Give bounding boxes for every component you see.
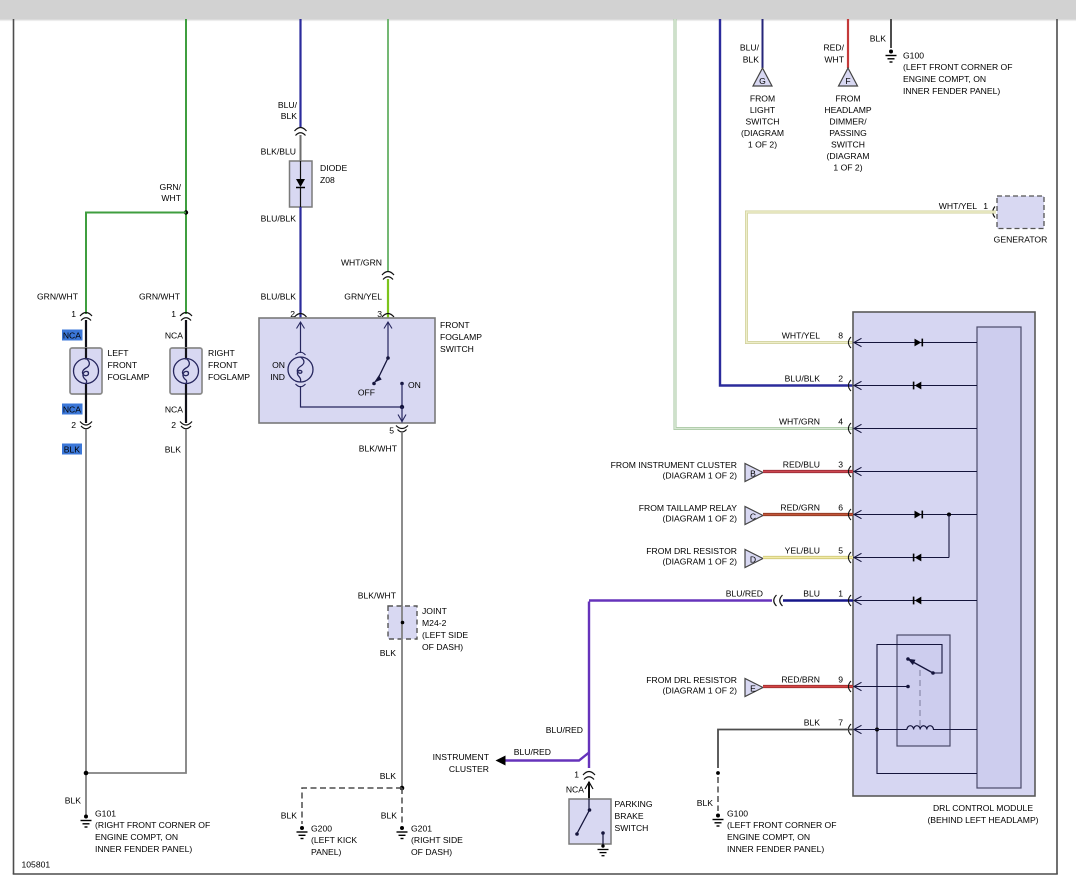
switch arm pin 3 to OFF [358,322,392,398]
svg-text:8: 8 [838,331,843,341]
svg-text:BRAKE: BRAKE [615,811,644,821]
svg-text:YEL/BLU: YEL/BLU [785,546,820,556]
svg-text:BLK: BLK [743,55,760,65]
connector G from light switch [741,68,784,150]
wire GRN/WHT branch to left foglamp [86,213,186,315]
node switch common junction [400,405,404,409]
svg-text:E: E [750,684,756,694]
connector inline on switch feed [382,272,394,280]
svg-text:INNER FENDER PANEL): INNER FENDER PANEL) [95,844,192,854]
diode Z08 [290,161,348,207]
svg-text:ON: ON [272,360,285,370]
top gray toolbar strip [0,0,1076,19]
svg-text:ON: ON [408,380,421,390]
diode on pin 5 (points left) [915,554,922,562]
connector D [745,550,763,568]
node on BLK ground wire [716,771,720,775]
svg-text:2: 2 [71,420,76,430]
ground G101 [81,809,211,855]
svg-text:(DIAGRAM 1 OF 2): (DIAGRAM 1 OF 2) [663,514,738,524]
connector F from headlamp dimmer [824,68,872,173]
svg-text:BLK: BLK [165,445,182,455]
svg-text:BLU/RED: BLU/RED [546,725,583,735]
ground G100 bottom [713,809,837,855]
svg-text:FROM: FROM [750,94,775,104]
relay inside module [875,635,977,774]
pin 3 internal line [854,467,977,475]
wire BLU/BLK to connector G [762,19,764,68]
svg-text:BLK: BLK [697,798,714,808]
svg-text:(BEHIND LEFT HEADLAMP): (BEHIND LEFT HEADLAMP) [927,815,1038,825]
svg-text:FROM DRL RESISTOR: FROM DRL RESISTOR [646,675,737,685]
svg-text:BLK: BLK [65,796,82,806]
switch ON contact [400,380,421,407]
wire BLK/BLU connector to diode [300,135,302,161]
connector B [745,464,763,482]
label NCA highlighted (left) [62,330,83,341]
svg-text:PASSING: PASSING [829,128,867,138]
wire RED/WHT to connector F [847,19,849,68]
ground G201 [397,824,464,858]
svg-text:BLU/BLK: BLU/BLK [785,374,821,384]
svg-text:FROM DRL RESISTOR: FROM DRL RESISTOR [646,546,737,556]
wire BLK lead out of right foglamp [185,394,187,423]
svg-text:ENGINE COMPT, ON: ENGINE COMPT, ON [903,74,986,84]
svg-text:DIMMER/: DIMMER/ [829,117,867,127]
svg-text:1: 1 [838,589,843,599]
ground G100 top right [886,50,1013,97]
svg-text:OF DASH): OF DASH) [411,847,452,857]
connector inline on diode feed [295,128,307,136]
svg-text:BLK: BLK [281,111,298,121]
svg-text:3: 3 [838,460,843,470]
connector at pin 7 [848,724,851,735]
svg-text:1: 1 [171,309,176,319]
svg-text:BLU/RED: BLU/RED [726,589,763,599]
wire BLK module pin 7 to G100 [718,730,853,769]
pin 1 internal line with diode [854,596,977,604]
svg-text:7: 7 [838,718,843,728]
svg-text:1: 1 [71,309,76,319]
svg-text:D: D [750,555,756,565]
svg-text:INSTRUMENT: INSTRUMENT [433,752,490,762]
svg-text:WHT: WHT [161,193,181,203]
svg-text:C: C [750,512,756,522]
wire BLK lead into right foglamp [185,320,187,348]
svg-text:1: 1 [983,201,988,211]
svg-text:PARKING: PARKING [615,799,653,809]
connector at pin 8 [848,337,851,348]
svg-text:(LEFT FRONT CORNER OF: (LEFT FRONT CORNER OF [727,820,837,830]
diode on pin 2 (points left) [915,382,922,390]
svg-text:BLK: BLK [64,445,81,455]
connector at pin 9 [848,681,851,692]
svg-text:CLUSTER: CLUSTER [449,764,489,774]
pin 7 internal line with relay coil [854,725,977,733]
connector at generator pin 1 [993,207,995,218]
pin 8 internal line with diode [854,338,977,346]
svg-text:SWITCH: SWITCH [440,344,474,354]
svg-text:NCA: NCA [165,331,183,341]
pin 5 internal line with diode [854,553,949,561]
connector at pin 2 [848,380,851,391]
wire lamp to common bar [301,386,403,407]
svg-text:9: 9 [838,675,843,685]
svg-text:INNER FENDER PANEL): INNER FENDER PANEL) [903,86,1000,96]
svg-text:G100: G100 [727,809,748,819]
svg-text:(DIAGRAM 1 OF 2): (DIAGRAM 1 OF 2) [663,471,738,481]
joint M24-2 [388,606,468,652]
diode on pin 6 (points right) [915,511,922,519]
svg-text:(LEFT KICK: (LEFT KICK [311,835,357,845]
svg-text:RED/: RED/ [823,43,844,53]
svg-text:RED/GRN: RED/GRN [780,503,820,513]
connector at pin 6 [848,509,851,520]
wire WHT/YEL generator to module pin 8 [747,212,997,343]
connector at pin 1 [848,595,851,606]
svg-text:SWITCH: SWITCH [615,823,649,833]
svg-text:GRN/: GRN/ [160,182,182,192]
svg-text:GRN/YEL: GRN/YEL [344,292,382,302]
svg-text:BLU/RED: BLU/RED [514,747,551,757]
svg-text:BLU/BLK: BLU/BLK [261,214,297,224]
svg-text:M24-2: M24-2 [422,618,447,628]
svg-text:B: B [750,469,756,479]
svg-text:2: 2 [171,420,176,430]
wire RED/BLU to pin 3 [763,470,853,473]
wire BLU/BLK feed to diode Z08 [299,19,301,127]
svg-text:RED/BRN: RED/BRN [781,675,820,685]
wire BLU to pin 1 [783,599,853,601]
svg-text:FROM: FROM [835,94,860,104]
generator (dashed box) [994,196,1048,245]
wire YEL/BLU to pin 5 [763,556,853,559]
wire BLK to G100 top [890,19,892,48]
wire BLU/RED down to parking brake switch [588,602,590,769]
svg-text:JOINT: JOINT [422,606,448,616]
arrow up at switch pin 2 [297,322,305,353]
svg-text:5: 5 [389,426,394,436]
svg-text:BLU/: BLU/ [740,43,760,53]
lamp LEFT FRONT FOGLAMP [70,348,150,394]
svg-text:INNER FENDER PANEL): INNER FENDER PANEL) [727,844,824,854]
svg-text:WHT/GRN: WHT/GRN [341,258,382,268]
svg-text:RED/BLU: RED/BLU [783,460,820,470]
svg-text:BLU/BLK: BLU/BLK [261,292,297,302]
svg-text:LEFT: LEFT [108,348,130,358]
svg-text:F: F [845,76,850,86]
label BLK highlighted (left) [62,444,82,455]
svg-text:PANEL): PANEL) [311,847,342,857]
connector at parking brake pin 1 [583,772,595,780]
wire BLK/WHT switch to joint M24-2 [401,433,403,606]
wire BLK lead into left foglamp [85,320,87,348]
pin 6 internal line with diode [854,510,977,518]
svg-text:ENGINE COMPT, ON: ENGINE COMPT, ON [727,832,810,842]
DRL control module U1 [853,312,1039,825]
pin 4 internal line [854,424,977,432]
wire BLU/BLK diode to switch pin 2 [299,207,301,318]
wire BLU/BLK feed to module pin 2 [720,19,853,386]
pin 2 internal line with diode [854,381,977,389]
svg-text:FROM INSTRUMENT CLUSTER: FROM INSTRUMENT CLUSTER [611,460,737,470]
svg-text:Z08: Z08 [320,175,335,185]
svg-text:BLK: BLK [281,811,298,821]
wire BLK lead out of left foglamp [85,394,87,423]
svg-text:WHT/YEL: WHT/YEL [939,201,977,211]
wire GRN/YEL connector to switch pin 3 [387,279,389,318]
diode on pin 8 (points right) [915,339,922,347]
svg-text:(DIAGRAM: (DIAGRAM [827,151,870,161]
wire dashed to G200 [302,788,402,824]
svg-text:LIGHT: LIGHT [750,105,776,115]
svg-text:BLK: BLK [804,718,821,728]
wire WHT/GRN feed to module pin 4 [675,19,853,429]
svg-text:G201: G201 [411,824,432,834]
svg-text:NCA: NCA [63,405,81,415]
svg-text:FRONT: FRONT [108,360,138,370]
svg-text:IND: IND [270,372,285,382]
wire BLU/RED horizontal [589,599,772,601]
svg-text:FRONT: FRONT [440,320,470,330]
svg-text:SWITCH: SWITCH [746,117,780,127]
lamp ON IND indicator [270,352,313,387]
connector C [745,507,763,525]
svg-text:NCA: NCA [63,331,81,341]
connector at pin 4 [848,423,851,434]
svg-text:WHT/GRN: WHT/GRN [779,417,820,427]
svg-text:BLU/: BLU/ [278,100,298,110]
arrow down to switch pin 5 [398,407,406,423]
svg-text:DIODE: DIODE [320,163,347,173]
svg-text:1 OF 2): 1 OF 2) [748,140,777,150]
svg-text:RIGHT: RIGHT [208,348,235,358]
node GRN/WHT branch junction [184,210,188,214]
svg-text:GRN/WHT: GRN/WHT [37,292,79,302]
lamp RIGHT FRONT FOGLAMP [170,348,250,394]
svg-text:OFF: OFF [358,388,375,398]
switch PARKING BRAKE SWITCH [569,799,653,846]
connector inline double on pin 1 feed [774,595,783,606]
wire BLU/RED branch to instrument cluster [505,753,589,761]
svg-text:(DIAGRAM 1 OF 2): (DIAGRAM 1 OF 2) [663,686,738,696]
svg-text:FOGLAMP: FOGLAMP [440,332,482,342]
svg-text:BLK: BLK [380,648,397,658]
svg-text:G200: G200 [311,824,332,834]
connector E [745,679,763,697]
switch FRONT FOGLAMP SWITCH [259,318,482,423]
svg-text:BLK: BLK [380,771,397,781]
label NCA highlighted lower (left) [62,404,83,415]
node pin6/pin5 tie [947,513,951,517]
svg-text:BLK: BLK [870,34,887,44]
connector at pin 3 [848,466,851,477]
wire dashed BLK to G100 bottom [717,777,719,811]
svg-text:WHT/YEL: WHT/YEL [782,331,820,341]
wire RED/BRN to pin 9 [763,685,853,688]
svg-text:FROM TAILLAMP RELAY: FROM TAILLAMP RELAY [639,503,737,513]
wire GRN/WHT vertical feed to right foglamp [185,19,187,314]
svg-text:(LEFT SIDE: (LEFT SIDE [422,630,468,640]
svg-text:(DIAGRAM: (DIAGRAM [741,128,784,138]
svg-text:HEADLAMP: HEADLAMP [824,105,872,115]
svg-text:(RIGHT SIDE: (RIGHT SIDE [411,835,463,845]
wire pin6 to pin5 internal [948,515,950,558]
wire BLK left foglamp to G101 [85,429,87,816]
svg-text:G101: G101 [95,809,116,819]
wire BLK joint to ground junction [401,639,403,788]
svg-text:GENERATOR: GENERATOR [994,235,1048,245]
svg-text:NCA: NCA [165,405,183,415]
svg-text:1: 1 [574,770,579,780]
node ground branch junction [400,786,405,791]
svg-text:GRN/WHT: GRN/WHT [139,292,181,302]
ground at parking brake switch [598,844,609,855]
ground G200 [297,824,358,858]
svg-text:G100: G100 [903,51,924,61]
svg-text:DRL CONTROL MODULE: DRL CONTROL MODULE [933,803,1033,813]
svg-text:BLU: BLU [803,589,820,599]
wire WHT/GRN feed to switch [387,19,389,271]
svg-text:105801: 105801 [22,860,51,870]
svg-text:(LEFT FRONT CORNER OF: (LEFT FRONT CORNER OF [903,62,1013,72]
svg-text:OF DASH): OF DASH) [422,642,463,652]
wire BLK right foglamp down and over to G101 [86,429,186,773]
svg-text:BLK/WHT: BLK/WHT [359,444,398,454]
wire RED/GRN to pin 6 [763,513,853,516]
svg-text:FRONT: FRONT [208,360,238,370]
svg-text:NCA: NCA [566,785,584,795]
svg-text:(RIGHT FRONT CORNER OF: (RIGHT FRONT CORNER OF [95,820,210,830]
pin 9 internal line to relay coil contact [854,682,908,690]
svg-text:(DIAGRAM 1 OF 2): (DIAGRAM 1 OF 2) [663,557,738,567]
svg-text:ENGINE COMPT, ON: ENGINE COMPT, ON [95,832,178,842]
diode on pin 1 (points left) [915,597,922,605]
svg-text:WHT: WHT [824,55,844,65]
svg-text:G: G [759,76,766,86]
connector at pin 5 [848,552,851,563]
svg-text:BLK/BLU: BLK/BLU [261,147,296,157]
node junction at G101 riser [84,771,89,776]
wire dashed to G201 [401,788,403,824]
svg-text:4: 4 [838,417,843,427]
arrow to instrument cluster [496,756,506,766]
svg-text:6: 6 [838,503,843,513]
svg-text:BLK/WHT: BLK/WHT [358,591,397,601]
svg-text:FOGLAMP: FOGLAMP [108,372,150,382]
svg-text:SWITCH: SWITCH [831,140,865,150]
svg-text:2: 2 [838,374,843,384]
wire lead with up arrow into connector [585,782,593,799]
svg-text:FOGLAMP: FOGLAMP [208,372,250,382]
svg-text:1 OF 2): 1 OF 2) [833,163,862,173]
svg-text:BLK: BLK [381,811,398,821]
svg-text:5: 5 [838,546,843,556]
